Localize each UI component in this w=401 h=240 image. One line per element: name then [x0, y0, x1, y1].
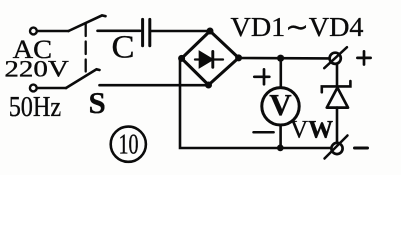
node bridge top corner	[207, 28, 214, 35]
wire zener bottom lead	[336, 108, 339, 144]
node bridge left corner	[178, 55, 185, 62]
terminal output plus	[330, 53, 341, 64]
svg-text:C: C	[112, 30, 135, 66]
wire DC plus: bridge right corner to output terminal	[239, 57, 330, 60]
node voltmeter top junction	[277, 55, 284, 62]
label + near voltmeter	[254, 69, 269, 84]
node voltmeter bottom junction	[277, 145, 284, 152]
svg-text:S: S	[89, 85, 106, 120]
svg-text:VD1∼VD4: VD1∼VD4	[231, 12, 365, 42]
switch S dashed link	[85, 24, 87, 72]
wire terminal to switch pivot 2	[37, 87, 66, 90]
terminal AC top-left	[30, 28, 37, 35]
svg-text:VW: VW	[290, 117, 333, 144]
wire voltmeter top lead	[279, 58, 282, 87]
node bridge right corner	[235, 54, 242, 61]
capacitor C plate left	[141, 19, 144, 45]
label + output	[357, 51, 370, 64]
svg-text:220V: 220V	[4, 57, 69, 82]
wire DC minus: bridge left corner down and bottom rail	[180, 58, 332, 148]
switch S pole2 blade	[66, 69, 100, 88]
capacitor C plate right	[148, 19, 151, 45]
switch S pole1 blade	[69, 15, 106, 31]
wire switch2 to bridge bottom corner	[100, 84, 209, 87]
svg-text:V: V	[269, 87, 292, 122]
wire voltmeter bottom lead	[279, 126, 282, 149]
zener diode VW triangle	[327, 88, 348, 108]
slash on minus terminal	[325, 136, 348, 159]
diode symbol inside bridge	[195, 52, 223, 68]
figure number circle 10	[111, 127, 146, 162]
svg-text:50Hz: 50Hz	[9, 92, 62, 123]
wire capacitor to bridge top	[151, 30, 210, 33]
slash on plus terminal	[324, 47, 347, 68]
label - near voltmeter	[254, 131, 274, 134]
label - output	[355, 147, 368, 150]
svg-text:10: 10	[119, 130, 139, 161]
node bridge bottom corner	[205, 82, 212, 89]
voltmeter V meter circle	[262, 88, 299, 125]
terminal output minus	[331, 143, 342, 154]
zener diode VW cathode bar	[322, 81, 351, 92]
wire switch to capacitor	[98, 29, 141, 32]
wire terminal to switch pivot	[37, 30, 68, 33]
terminal AC bottom-left	[30, 85, 37, 92]
bridge rectifier VD1-VD4 diamond	[182, 31, 239, 85]
wire zener top lead	[336, 64, 339, 86]
